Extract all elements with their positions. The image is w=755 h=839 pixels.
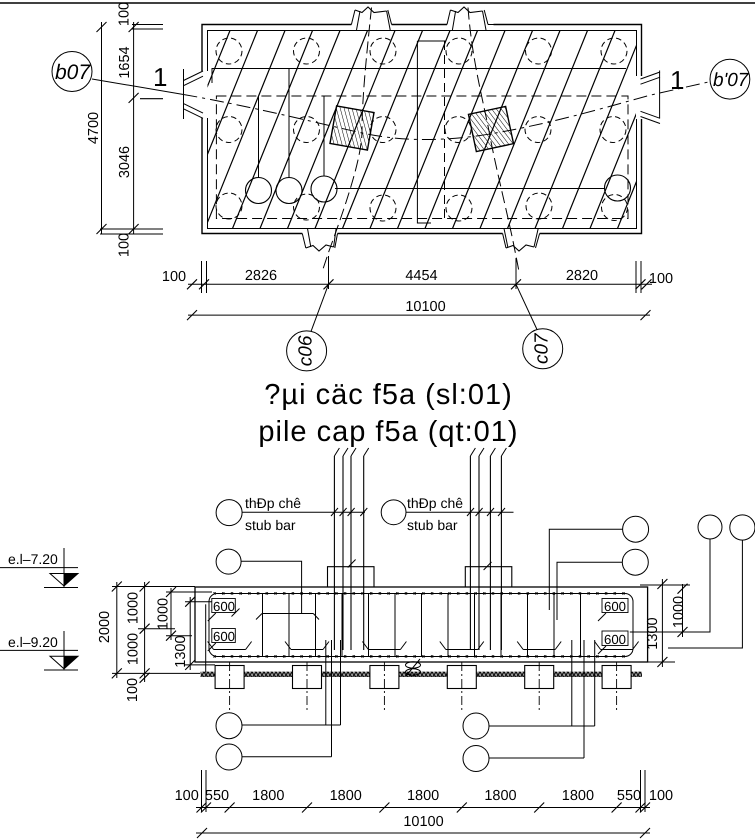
svg-text:b07: b07 [55,61,91,84]
stirrup tick marks top [214,592,625,657]
right dim chain 1300 [638,579,675,667]
left dim chain 1000/1000/100 [138,582,175,683]
svg-text:600: 600 [213,629,235,644]
svg-text:1000: 1000 [125,633,141,665]
bar leader verticals left [326,640,341,757]
battered pile 1 dashed centerline [322,8,372,273]
section cut line 1-1 [92,79,184,95]
svg-text:?µi cäc f5a (sl:01): ?µi cäc f5a (sl:01) [264,379,512,411]
right callout circle A [623,516,649,542]
section dim line 10100 [196,828,650,838]
svg-text:4700: 4700 [86,112,102,144]
svg-text:10100: 10100 [405,299,445,315]
svg-text:2000: 2000 [97,611,113,643]
plan dimension line 10100 [187,310,651,320]
section bottom extension lines [202,770,646,812]
grid bubble b'07 [710,59,750,99]
right callout circle B [622,549,648,575]
svg-text:1: 1 [670,65,684,95]
svg-text:1300: 1300 [173,635,189,667]
pile cap concrete hatch fill [123,30,698,229]
svg-text:100: 100 [175,788,199,804]
svg-text:2826: 2826 [245,268,277,284]
svg-text:2820: 2820 [566,268,598,284]
leader ticks on stub bar lines [331,508,505,516]
svg-text:600: 600 [604,632,626,647]
lean concrete strip [201,672,643,677]
lower-left bar callout circle [216,549,241,574]
svg-text:100: 100 [649,788,673,804]
pile cap inner border [208,31,637,229]
stub bar callout 2 [381,500,406,525]
left dimension chain extension lines [100,25,163,235]
rebar cage [209,594,633,657]
svg-text:600: 600 [213,599,235,614]
svg-text:600: 600 [604,599,626,614]
wall plinth left [328,560,375,588]
lower callout circle E [216,713,242,739]
svg-text:b'07: b'07 [713,70,750,91]
plan bottom extension lines [202,256,642,293]
svg-text:e.l–9.20: e.l–9.20 [8,634,58,650]
callout bubble c06 [287,331,327,371]
svg-text:1000: 1000 [671,596,687,628]
elevation marker e.l-9.20 [0,631,78,670]
svg-text:thÐp chê: thÐp chê [407,495,463,511]
dashed pile circles middle row [216,117,626,143]
lower callout circle G [463,713,489,739]
svg-text:1800: 1800 [252,788,284,804]
svg-text:1300: 1300 [645,617,661,649]
svg-text:1800: 1800 [330,788,362,804]
pile centerlines [230,662,617,712]
svg-text:4454: 4454 [405,268,437,284]
svg-text:stub bar: stub bar [407,517,458,533]
svg-text:1800: 1800 [562,788,594,804]
bottom pile notch 1 [302,229,337,252]
svg-text:10100: 10100 [403,814,443,830]
svg-text:100: 100 [116,2,132,26]
dashed pile circles top row [216,38,627,64]
svg-text:550: 550 [205,788,229,804]
bar mark box 600 bottom-right [598,631,628,654]
bottom bar hooks above piles [208,642,639,650]
wall dowel bars cluster 2 [470,448,506,650]
elevation marker e.l-7.20 [0,548,78,588]
svg-text:pile cap f5a (qt:01): pile cap f5a (qt:01) [258,416,518,448]
right callout circle C [698,515,722,539]
pile stubs below cap [215,666,631,689]
callout bubble c07 [523,329,563,369]
wall dowel bars cluster 1 [334,448,368,650]
solid pile circles [246,175,631,204]
left column diamond [330,106,374,150]
svg-text:100: 100 [116,233,132,257]
right callout circle D [730,515,755,540]
bottom pile notch 2 [503,229,540,252]
stub bar callout 1 [216,500,242,526]
inner ledge solid lines [212,69,626,189]
right dim chain 1000 [640,584,690,637]
svg-text:100: 100 [649,271,673,287]
sheet top border line [0,2,755,4]
pile cap outer border [202,25,642,234]
svg-text:thÐp chê: thÐp chê [245,495,301,511]
svg-text:1000: 1000 [155,598,171,630]
section dim line 100/550/1800x5/550/100 [196,803,650,813]
grid bubble b07 [52,52,92,92]
bar mark box 600 top-right [598,599,628,622]
svg-text:1800: 1800 [484,788,516,804]
svg-text:1000: 1000 [125,592,141,624]
wall plinth right [465,562,512,587]
left wall stub [184,69,204,119]
svg-text:c07: c07 [532,332,553,364]
lower callout circle H [463,746,489,772]
svg-text:100: 100 [162,269,186,285]
svg-text:3046: 3046 [117,146,133,178]
battered pile 2 dashed centerline [468,8,520,275]
dimension line 4700 [97,22,107,234]
cap section outline [195,587,648,662]
stirrup verticals [263,594,581,657]
bar mark box 600 top-left [208,599,240,622]
svg-text:e.l–7.20: e.l–7.20 [8,551,58,567]
left dim chain 2000 [112,582,200,679]
svg-text:1: 1 [153,62,167,92]
svg-text:550: 550 [617,788,641,804]
inner dashed rectangle [216,96,628,219]
bar mark box 600 bottom-left [208,629,236,652]
left dim chain 1300 (inner) [185,597,215,673]
dashed pile circles bottom row [216,193,628,221]
bar leader verticals right [572,640,595,758]
svg-text:100: 100 [125,678,141,702]
svg-text:c06: c06 [296,335,317,366]
plan dimension line 100/2826/4454/2820/100 [187,279,652,289]
svg-text:1800: 1800 [407,788,439,804]
right wall stub [641,71,661,124]
svg-text:1654: 1654 [117,46,133,78]
top pile notch 2 [447,7,494,30]
central wall rectangle [417,41,445,223]
top pile notch 1 [351,7,391,30]
horizontal bar with hooks (left) [256,614,319,620]
left dim chain 1000 (inner) [166,587,212,641]
cap top edge extension to left dims [112,586,195,588]
svg-text:stub bar: stub bar [245,517,296,533]
keyway detail ellipses [406,659,421,676]
lower callout circle F [216,744,242,770]
dimension line 100/1654/3046/100 [129,22,139,234]
right column diamond [468,106,513,151]
leader lines to solid circles [259,69,325,178]
